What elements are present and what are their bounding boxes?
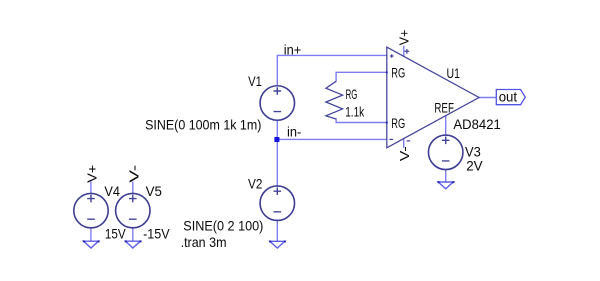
- svg-text:in-: in-: [287, 124, 302, 140]
- svg-text:V+: V+: [85, 165, 100, 183]
- svg-text:-15V: -15V: [143, 226, 170, 242]
- svg-text:SINE(0 2 100): SINE(0 2 100): [183, 218, 263, 234]
- svg-text:V2: V2: [248, 176, 263, 192]
- svg-text:V-: V-: [127, 165, 142, 183]
- svg-text:SINE(0 100m 1k 1m): SINE(0 100m 1k 1m): [145, 117, 261, 133]
- svg-text:V-: V-: [397, 146, 412, 161]
- svg-text:out: out: [499, 89, 517, 105]
- svg-text:RG: RG: [346, 86, 358, 102]
- svg-text:2V: 2V: [466, 158, 483, 174]
- svg-text:REF: REF: [434, 99, 454, 115]
- svg-text:V1: V1: [248, 73, 262, 89]
- svg-text:RG: RG: [391, 65, 405, 81]
- svg-text:V5: V5: [146, 183, 163, 199]
- svg-text:15V: 15V: [105, 226, 126, 242]
- svg-text:AD8421: AD8421: [453, 116, 501, 132]
- svg-text:.tran 3m: .tran 3m: [181, 234, 227, 250]
- svg-text:RG: RG: [391, 115, 405, 131]
- svg-text:V4: V4: [104, 183, 120, 199]
- svg-text:1.1k: 1.1k: [345, 103, 365, 119]
- svg-text:in+: in+: [284, 42, 302, 58]
- svg-text:V+: V+: [396, 30, 411, 46]
- svg-text:U1: U1: [447, 65, 461, 81]
